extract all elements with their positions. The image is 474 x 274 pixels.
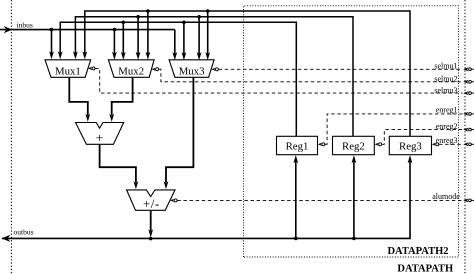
control enreg3 wire (to Reg3)	[432, 143, 463, 146]
wire Mux3 input2 from L3	[183, 22, 185, 56]
control selmu1 wire (to Mux3)	[211, 68, 462, 71]
inbus input arrow	[4, 26, 13, 33]
svg-text:enreg2: enreg2	[436, 122, 458, 131]
control enreg1 wire (to Reg1)	[318, 114, 463, 146]
junction on L2 at Mux2	[136, 15, 140, 19]
svg-text:+: +	[96, 131, 104, 146]
control selmu3 wire (to Mux1)	[88, 67, 463, 93]
outer DATAPATH box right border	[464, 0, 466, 274]
svg-text:DATAPATH2: DATAPATH2	[387, 246, 448, 257]
arrowheads into Mux2	[112, 52, 150, 60]
junction on outbus at Reg1 riser	[294, 237, 298, 241]
wire Mux1 input1 from inbus	[51, 30, 53, 56]
mux Mux1	[45, 60, 91, 78]
register Reg1	[277, 136, 318, 154]
wire adder output to ALU	[100, 144, 136, 182]
arrowhead Mux1 to adder	[85, 114, 90, 122]
wire Mux2 input3 from L2	[137, 17, 139, 56]
svg-text:Reg1: Reg1	[286, 140, 309, 152]
svg-text:Reg3: Reg3	[399, 140, 422, 152]
svg-text:DATAPATH: DATAPATH	[397, 263, 453, 274]
junction on outbus at ALU output	[149, 237, 153, 241]
inner DATAPATH2 box border	[244, 6, 459, 257]
register Reg3	[389, 136, 431, 154]
wire Mux1 output to adder	[69, 77, 88, 115]
svg-text:enreg3: enreg3	[436, 136, 458, 145]
junction on L3 at Mux2	[122, 21, 126, 25]
wire Mux3 input1 from inbus	[174, 30, 176, 57]
svg-text:selmu3: selmu3	[434, 86, 457, 95]
adder U1 (+)	[76, 123, 124, 147]
junction on L1 at Mux3	[206, 9, 210, 13]
wire ALU output to outbus	[150, 210, 152, 231]
external entry arrow enreg1	[463, 112, 474, 116]
arrowhead adder to ALU	[134, 181, 139, 189]
wire Mux2 output to adder	[112, 77, 133, 115]
wire Mux3 output to ALU	[166, 77, 193, 182]
svg-text:Mux3: Mux3	[179, 66, 205, 78]
junction on L1 at Mux2	[146, 9, 150, 13]
svg-text:alumode: alumode	[432, 192, 460, 201]
junction on L2 at Mux3	[197, 15, 201, 19]
alu U2 (+/-)	[127, 190, 175, 211]
wire inbus horizontal	[0, 29, 175, 31]
wire Mux2 input1 from inbus	[113, 30, 115, 56]
junction on L3 at Mux3	[182, 21, 186, 25]
wire bus L1 (Reg3 feedback, y=11)	[85, 11, 410, 136]
wire Reg2 input riser	[353, 159, 355, 239]
external entry arrow selmu2	[463, 80, 474, 84]
arrowhead Mux3 to ALU	[164, 181, 169, 189]
arrowheads into Mux3	[172, 52, 210, 60]
wire Mux2 input4 from L1	[147, 11, 149, 56]
wire Mux3 input3 from L2	[198, 17, 200, 57]
junction on inbus at Mux1	[50, 28, 54, 32]
svg-text:inbus: inbus	[17, 21, 33, 30]
register Reg2	[333, 136, 375, 154]
wire Mux3 input4 from L1	[207, 11, 209, 56]
external entry arrow selmu1	[463, 67, 474, 71]
junction on outbus at Reg2 riser	[352, 237, 356, 241]
mux Mux3	[169, 60, 214, 78]
external entry arrow enreg3	[463, 142, 474, 146]
wire bus L3 (Reg1 feedback, y=22.3)	[60, 22, 296, 136]
arrowhead into Reg3	[408, 155, 413, 163]
outer DATAPATH box left border	[10, 0, 12, 274]
svg-text:outbus: outbus	[14, 227, 34, 236]
wire bus L2 (Reg2 feedback, y=16.8)	[75, 17, 353, 137]
svg-text:selmu2: selmu2	[434, 74, 457, 83]
control alumode wire (to ALU)	[170, 199, 462, 202]
arrowhead Mux2 to adder	[109, 114, 114, 122]
svg-text:enreg1: enreg1	[436, 106, 458, 115]
junction on inbus at Mux2	[113, 28, 117, 32]
svg-text:Mux2: Mux2	[118, 66, 144, 78]
control selmu2 wire (to Mux2)	[152, 68, 463, 82]
external entry arrow alumode	[463, 198, 474, 202]
wire Reg1 input riser	[295, 159, 297, 239]
external entry arrow selmu3	[463, 91, 474, 95]
outbus output arrow	[2, 235, 11, 242]
wire Mux2 input2 from L3	[122, 22, 124, 56]
svg-text:Reg2: Reg2	[342, 140, 365, 152]
arrowheads into Mux1	[49, 51, 87, 59]
arrowhead ALU to outbus	[148, 229, 153, 237]
svg-text:selmu1: selmu1	[434, 62, 457, 71]
svg-text:Mux1: Mux1	[55, 66, 81, 78]
mux Mux2	[108, 60, 154, 78]
arrowhead into Reg1	[293, 155, 298, 163]
control enreg2 wire (to Reg2)	[375, 130, 463, 146]
external entry arrow enreg2	[463, 128, 474, 132]
arrowhead into Reg2	[352, 155, 357, 163]
svg-text:+/-: +/-	[143, 196, 160, 211]
wire outbus and Reg3 input riser	[2, 159, 410, 239]
